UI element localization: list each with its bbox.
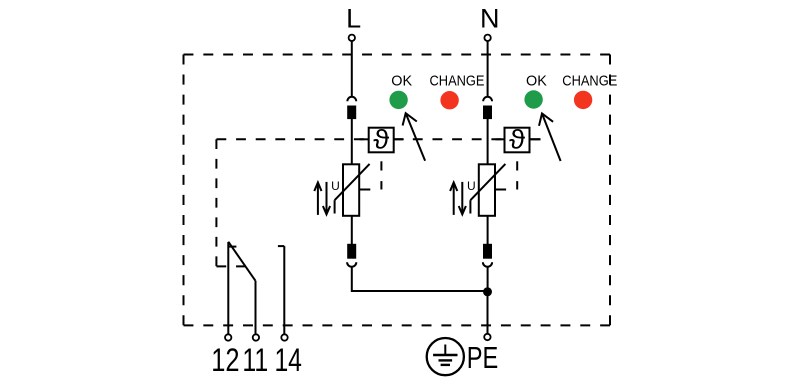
wire L top <box>351 42 353 97</box>
svg-text:11: 11 <box>242 342 268 378</box>
svg-text:12: 12 <box>211 342 239 378</box>
svg-text:OK: OK <box>526 74 547 90</box>
voltage arrows U (L) <box>314 179 340 215</box>
wire L to varistor <box>351 118 353 164</box>
voltage arrows U (N) <box>450 179 476 215</box>
wire N to varistor <box>487 118 489 164</box>
thermal disconnect (L branch, upper) <box>347 97 356 118</box>
wire N top <box>487 42 489 97</box>
varistor RV1 (L) <box>335 164 370 216</box>
changeover contact: COM leg 11 <box>255 281 257 334</box>
terminal 12 <box>225 334 231 340</box>
svg-text:U: U <box>467 179 476 193</box>
indicator OK (N) <box>524 74 547 109</box>
temperature sensor box (N) <box>496 125 541 155</box>
terminal 14 <box>281 334 287 340</box>
svg-text:CHANGE: CHANGE <box>562 74 617 90</box>
svg-text:14: 14 <box>274 342 302 378</box>
svg-text:U: U <box>331 179 340 193</box>
svg-text:CHANGE: CHANGE <box>430 74 485 90</box>
thermal disconnect (N branch, upper) <box>483 97 492 118</box>
svg-text:ϑ: ϑ <box>509 125 526 155</box>
varistor RV2 (N) <box>470 164 505 216</box>
wire to PE terminal <box>487 291 489 333</box>
actuator arrow (L) <box>403 113 426 161</box>
thermal disconnect (N branch, lower) <box>483 216 492 267</box>
terminal PE <box>484 334 490 340</box>
indicator OK (L) <box>389 74 412 110</box>
changeover contact: NO leg 14 <box>278 246 284 334</box>
svg-text:OK: OK <box>391 74 412 90</box>
junction node <box>483 287 492 296</box>
terminal N <box>484 35 490 41</box>
svg-text:L: L <box>346 4 361 34</box>
svg-text:N: N <box>480 4 500 34</box>
actuator arrow (N) <box>539 114 561 162</box>
thermal disconnect (L branch, lower) <box>347 216 356 267</box>
wire N bottom <box>487 267 489 291</box>
temperature sensor box (L) <box>360 125 404 155</box>
changeover contact: NC leg 12 <box>228 242 236 334</box>
terminal 11 <box>253 334 259 340</box>
indicator CHANGE (N) <box>562 74 617 110</box>
changeover contact: moving arm <box>228 242 255 281</box>
thermal link dashed (L) <box>360 161 382 189</box>
svg-text:ϑ: ϑ <box>373 125 390 155</box>
svg-text:PE: PE <box>467 340 499 375</box>
terminal L <box>349 35 355 41</box>
earth symbol <box>427 338 464 375</box>
mechanical linkage dashed line <box>216 139 540 266</box>
wire L bottom to junction <box>352 267 488 291</box>
indicator CHANGE (L) <box>430 74 485 110</box>
thermal link dashed (N) <box>496 161 518 189</box>
outer enclosure dashed border <box>184 55 611 326</box>
